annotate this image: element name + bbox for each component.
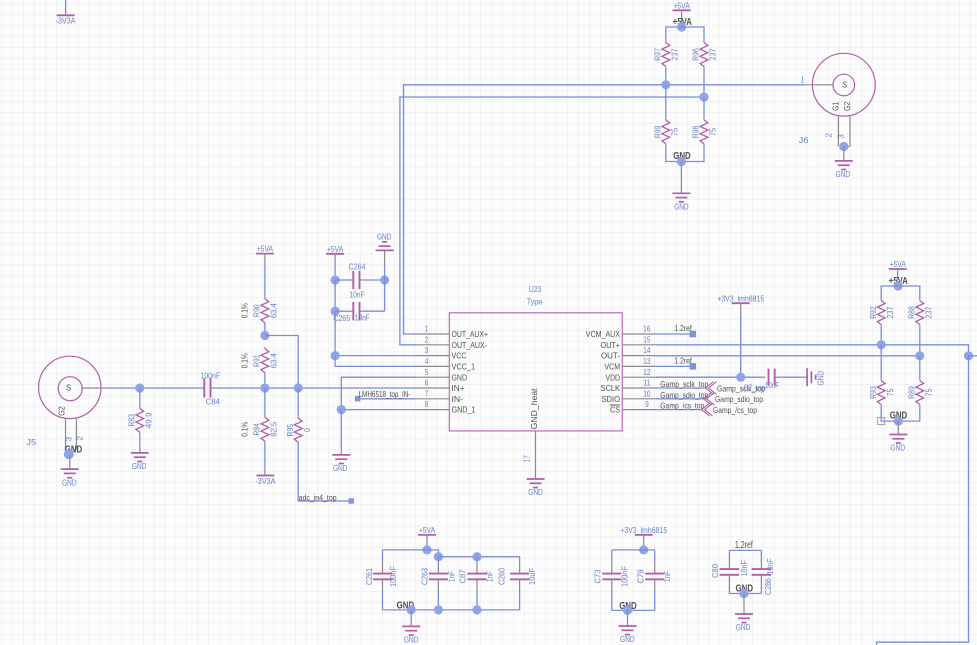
svg-text:10: 10	[643, 389, 651, 398]
pin 9 CS of U23	[610, 400, 656, 415]
svg-text:GND: GND	[736, 622, 751, 632]
svg-text:63.4: 63.4	[269, 353, 279, 368]
svg-text:OUT_AUX-: OUT_AUX-	[452, 341, 488, 350]
svg-text:10nF: 10nF	[739, 560, 749, 576]
wire VCM_AUX net (pin 16)	[656, 333, 691, 335]
pin 1 of J6	[801, 76, 833, 85]
pin G1 of J6	[824, 101, 841, 146]
wire R91 to main net	[264, 375, 266, 389]
wire VCC_1 net (pin 4)	[335, 356, 416, 367]
wire C87 top stub	[476, 557, 478, 574]
wire VDD net (pin 12)	[656, 376, 766, 378]
svg-text:1.2ref: 1.2ref	[674, 355, 692, 365]
resistor R83 49.9	[127, 407, 154, 435]
pin 11 SCLK of U23	[601, 379, 656, 394]
svg-text:VCC: VCC	[452, 352, 467, 361]
power +3V3_lmh6815 (bottom)	[620, 525, 667, 550]
wire R96 to node	[703, 68, 705, 97]
wire far right down to bottom	[877, 356, 969, 645]
wire GND rail (top bank)	[666, 146, 704, 162]
pin 13 VCM of U23	[605, 357, 656, 372]
wire top rail 1 (bottom bank)	[383, 550, 439, 557]
wire node B to R98	[703, 97, 705, 118]
junction C87 top	[472, 552, 481, 561]
junction R88/R89	[915, 351, 924, 360]
svg-text:11: 11	[643, 379, 651, 388]
svg-text:2: 2	[75, 436, 85, 441]
ground (above C264, inverted)	[376, 231, 394, 250]
wire R84 to -3V3A	[264, 443, 266, 475]
svg-text:1: 1	[425, 325, 429, 334]
wire to R83	[139, 388, 141, 407]
svg-text:C73: C73	[593, 569, 603, 583]
svg-text:J6: J6	[799, 135, 809, 145]
svg-text:3: 3	[425, 346, 429, 355]
wire VCC net (pin 3)	[335, 355, 416, 357]
svg-text:237: 237	[923, 306, 933, 318]
svg-text:82.5: 82.5	[269, 422, 279, 437]
wire GND net (pin 5)	[341, 377, 416, 409]
svg-text:GND: GND	[333, 463, 348, 473]
svg-text:R90: R90	[252, 304, 262, 317]
wire top rail (C80/C286)	[729, 549, 761, 551]
global label adc_in4_top	[299, 492, 354, 503]
svg-text:Gamp_sclk_top: Gamp_sclk_top	[660, 379, 708, 389]
wire to R89	[919, 356, 921, 379]
svg-text:VDD: VDD	[606, 373, 621, 382]
svg-text:C286: C286	[763, 578, 773, 595]
ground (top bank)	[672, 193, 690, 211]
svg-text:237: 237	[708, 48, 718, 60]
svg-text:GND: GND	[620, 634, 635, 644]
svg-text:C7_top: C7_top	[744, 383, 766, 393]
junction R83 top	[135, 383, 144, 392]
svg-text:3: 3	[835, 134, 845, 139]
pin 5 GND of U23	[416, 368, 467, 383]
svg-text:10nF: 10nF	[350, 289, 365, 299]
capacitor C286 10nF	[752, 559, 775, 596]
junction far right	[964, 351, 973, 360]
ground (pins 5/8)	[332, 455, 350, 473]
resistor R96 237	[691, 41, 718, 69]
wire top rail (C73/C79)	[612, 549, 655, 551]
junction R84 top on main net	[260, 383, 269, 392]
capacitor C79 1nF	[635, 569, 672, 583]
wire J6 to ground	[843, 147, 845, 161]
junction R95 top on main net	[294, 383, 303, 392]
svg-text:R99: R99	[653, 125, 663, 138]
resistor R88 237	[907, 299, 934, 327]
svg-text:4: 4	[425, 357, 429, 366]
svg-text:C261: C261	[364, 568, 374, 585]
svg-text:S: S	[66, 383, 71, 392]
wire C79 top stub	[654, 550, 656, 574]
svg-text:R83: R83	[127, 414, 137, 427]
wire bottom rail (C73/C79)	[612, 609, 655, 611]
resistor R90 63.4	[239, 297, 278, 325]
svg-text:C79: C79	[635, 569, 645, 583]
svg-text:16: 16	[643, 325, 651, 334]
svg-text:75: 75	[669, 128, 679, 136]
global label 1.2ref (pin 16)	[674, 323, 696, 337]
svg-text:OUT-: OUT-	[601, 352, 620, 361]
wire C79 bottom stub	[654, 579, 656, 610]
global label LMH6518_top_IN-	[355, 389, 411, 402]
wire C264 to C265 left	[334, 280, 336, 311]
wire main input net (J5 pin1 to IN+)	[98, 387, 416, 389]
capacitor C260 10uF	[497, 568, 537, 585]
svg-text:75: 75	[923, 388, 933, 396]
svg-text:Gamp_sdio_top: Gamp_sdio_top	[660, 390, 708, 400]
wire C260 bottom stub	[519, 579, 521, 610]
svg-text:C263: C263	[420, 568, 430, 585]
svg-text:-3V3A: -3V3A	[255, 476, 275, 486]
resistor R91 63.4	[239, 347, 278, 375]
svg-text:49.9: 49.9	[143, 412, 153, 428]
svg-text:75: 75	[885, 388, 895, 396]
wire OUT- net (pin 14)	[656, 355, 920, 357]
svg-text:IN+: IN+	[452, 384, 465, 393]
pin 3 VCC of U23	[416, 346, 467, 361]
resistor R98 75	[691, 118, 718, 146]
svg-text:R96: R96	[691, 48, 701, 61]
svg-text:GND: GND	[528, 487, 543, 497]
wire to ground (bottom bank)	[410, 610, 412, 627]
wire C286 top stub	[760, 550, 762, 569]
wire Gamp_sdio_top net	[656, 398, 704, 400]
svg-text:GND: GND	[816, 371, 826, 386]
wire R88 to OUT- net	[919, 326, 921, 356]
svg-text:U23: U23	[529, 284, 542, 294]
capacitor C264 10nF	[335, 262, 385, 300]
svg-text:GND: GND	[404, 635, 419, 645]
wire C265 to VCC net	[334, 311, 336, 355]
svg-text:17: 17	[523, 455, 532, 463]
svg-text:63.4: 63.4	[269, 303, 279, 318]
svg-text:+3V3_lmh6815: +3V3_lmh6815	[620, 525, 667, 535]
pin 15 OUT+ of U23	[601, 335, 656, 350]
svg-text:R88: R88	[907, 306, 917, 319]
svg-text:+3V3_lmh6815: +3V3_lmh6815	[717, 293, 764, 303]
wire to R95	[297, 388, 299, 416]
svg-text:J5: J5	[26, 437, 36, 447]
junction R90/R91	[260, 331, 269, 340]
global label Gamp_/cs_top	[702, 403, 758, 416]
svg-text:R93: R93	[868, 386, 878, 399]
svg-text:R92: R92	[868, 306, 878, 319]
resistor R95 0	[285, 416, 312, 444]
wire R95 to adc_in4_top label	[298, 444, 348, 501]
global label Gamp_sdio_top	[704, 393, 764, 406]
svg-text:10uF: 10uF	[527, 568, 537, 585]
svg-text:15: 15	[643, 335, 651, 344]
pin 7 IN- of U23	[416, 389, 464, 404]
wire C87 bottom stub	[476, 579, 478, 610]
svg-text:SDIO: SDIO	[602, 395, 621, 404]
svg-text:+5VA: +5VA	[890, 259, 907, 269]
svg-text:Type: Type	[527, 297, 543, 307]
ground (J6)	[835, 161, 853, 179]
connector J6	[812, 53, 875, 116]
junction +5VA top	[677, 22, 686, 31]
svg-text:0: 0	[302, 428, 312, 432]
capacitor C261 100nF	[364, 566, 398, 587]
resistor R84 82.5	[239, 416, 278, 444]
svg-text:GND: GND	[836, 169, 851, 179]
wire C286 bottom stub	[760, 575, 762, 594]
power +5VA (bottom bank)	[418, 525, 436, 550]
capacitor C84 100nF	[200, 370, 220, 406]
svg-text:100nF: 100nF	[388, 566, 398, 587]
junction GND net	[337, 405, 346, 414]
junction C263 bottom	[434, 605, 443, 614]
wire C73 top stub	[611, 550, 613, 574]
svg-text:+5VA: +5VA	[673, 0, 690, 10]
pin 16 VCM_AUX of U23	[586, 325, 656, 340]
junction node A	[661, 80, 670, 89]
svg-text:+5VA: +5VA	[327, 244, 344, 254]
svg-text:GND: GND	[377, 231, 392, 241]
svg-text:8: 8	[425, 400, 429, 409]
svg-text:1.2ref: 1.2ref	[674, 323, 692, 333]
wire R93/R89 to GND rail	[881, 406, 920, 421]
junction C264 right	[380, 275, 389, 284]
svg-text:14: 14	[643, 346, 651, 355]
pin G1 of J5	[70, 419, 85, 454]
svg-text:R84: R84	[252, 423, 262, 436]
svg-text:9: 9	[645, 400, 649, 409]
power +5VA (C264 block)	[326, 244, 344, 280]
wire Gamp_/cs_top net	[656, 409, 702, 411]
svg-text:100nF: 100nF	[200, 370, 220, 380]
svg-text:LMH6518_top_IN-: LMH6518_top_IN-	[359, 389, 411, 399]
wire C263 bottom stub	[437, 579, 439, 610]
svg-text:IN-: IN-	[452, 395, 464, 404]
svg-text:VCM: VCM	[605, 363, 621, 372]
svg-text:10nF: 10nF	[765, 380, 779, 390]
svg-text:R91: R91	[252, 354, 262, 367]
wire to ground (right bank)	[897, 421, 899, 434]
svg-text:C80: C80	[710, 564, 720, 578]
svg-text:OUT_AUX+: OUT_AUX+	[452, 330, 489, 339]
resistor R93 75	[868, 379, 895, 407]
wire R97 to node	[665, 68, 667, 85]
wire C260 top stub	[519, 557, 521, 574]
svg-text:GND: GND	[62, 477, 77, 487]
svg-text:Gamp_sdio_top: Gamp_sdio_top	[715, 394, 763, 404]
svg-text:1nF: 1nF	[447, 571, 457, 582]
junction C264 left	[331, 275, 340, 284]
junction R92/R93	[877, 340, 886, 349]
svg-text:6: 6	[425, 379, 429, 388]
pin 10 SDIO of U23	[602, 389, 656, 404]
svg-text:R89: R89	[907, 386, 917, 399]
pin G2 of J5	[56, 406, 73, 454]
svg-text:VCM_AUX: VCM_AUX	[586, 330, 621, 339]
capacitor C263 1nF	[420, 568, 457, 585]
svg-text:0.1%: 0.1%	[239, 303, 249, 318]
global label Gamp_sclk_top	[706, 382, 766, 395]
svg-text:5: 5	[425, 368, 429, 377]
pin 17 GND_heat of U23	[523, 388, 539, 479]
pin 6 IN+ of U23	[416, 379, 465, 394]
junction GND right bank	[894, 417, 903, 426]
value label C7_top 10nF	[744, 380, 780, 392]
capacitor C265 10nF	[333, 280, 384, 323]
svg-text:C260: C260	[497, 568, 507, 585]
ground (pin 17)	[527, 479, 545, 497]
wire C73 bottom stub	[611, 579, 613, 610]
junction GND C73/C79	[623, 606, 632, 615]
svg-text:1: 1	[801, 76, 805, 85]
svg-text:R95: R95	[285, 424, 295, 437]
wire C80 bottom stub	[728, 575, 730, 594]
wire to ground (C80 group)	[743, 594, 745, 615]
resistor R89 75	[907, 379, 934, 407]
svg-text:100nF: 100nF	[619, 566, 629, 587]
ground (pin 12, sideways)	[807, 368, 826, 386]
wire Gamp_sclk_top net	[656, 387, 706, 389]
ground (R83)	[131, 453, 149, 471]
junction node B	[699, 92, 708, 101]
wire to R93	[880, 345, 882, 379]
svg-text:GND: GND	[674, 202, 689, 212]
svg-text:G2: G2	[56, 406, 66, 416]
svg-text:Gamp_/cs_top: Gamp_/cs_top	[660, 401, 704, 411]
pin 8 GND_1 of U23	[416, 400, 476, 415]
wire C80 top stub	[728, 550, 730, 569]
svg-text:OUT+: OUT+	[601, 341, 621, 350]
svg-text:2: 2	[425, 335, 429, 344]
wire to R84	[264, 388, 266, 416]
svg-text:7: 7	[425, 389, 429, 398]
svg-text:1.2ref: 1.2ref	[735, 540, 753, 551]
junction VDD	[736, 373, 745, 382]
connector J5	[39, 356, 101, 418]
svg-text:adc_in4_top: adc_in4_top	[299, 492, 337, 502]
svg-text:C265: C265	[333, 313, 350, 323]
wire to ground (top bank)	[680, 162, 682, 194]
wire C263 top stub	[437, 557, 439, 574]
svg-text:CS: CS	[610, 406, 620, 415]
svg-text:2: 2	[824, 133, 834, 138]
wire R90 to R91	[264, 325, 266, 336]
junction +3V3 bottom	[639, 545, 648, 554]
wire +5VA rail top	[666, 27, 704, 41]
ground (bottom bank)	[402, 626, 420, 644]
pin 12 VDD of U23	[606, 368, 656, 383]
pin 2 OUT_AUX- of U23	[416, 335, 487, 350]
wire node A to R99	[665, 85, 667, 118]
power +5VA (top bank)	[673, 0, 691, 23]
ground (C73/C79)	[619, 626, 637, 644]
global label 1.2ref (pin 13)	[674, 355, 696, 369]
power +3V3_lmh6815 (middle)	[717, 293, 764, 377]
svg-text:GND: GND	[891, 443, 906, 453]
svg-text:C84: C84	[206, 397, 220, 407]
svg-text:237: 237	[885, 306, 895, 318]
svg-text:+5VA: +5VA	[257, 244, 274, 254]
svg-text:10nF: 10nF	[765, 559, 775, 575]
wire to ground (pins 5/8)	[340, 410, 342, 455]
pin G2 of J6	[835, 101, 852, 146]
wire junction to R95 column	[265, 336, 298, 389]
ground (J5)	[61, 469, 79, 487]
no-connect marker	[878, 418, 885, 425]
junction +5VA right	[894, 281, 903, 290]
junction GND bottom bank	[407, 605, 416, 614]
svg-text:G2: G2	[842, 101, 852, 111]
resistor R99 75	[653, 118, 680, 146]
wire bottom rail (bottom bank)	[383, 609, 520, 611]
capacitor C73 100nF	[593, 566, 630, 587]
junction J5 ground	[64, 449, 74, 459]
capacitor C87 1nF	[457, 569, 494, 583]
svg-text:13: 13	[643, 357, 651, 366]
pin 4 VCC_1 of U23	[416, 357, 476, 372]
wire far right to edge	[969, 355, 977, 357]
svg-text:GND_heat: GND_heat	[529, 388, 539, 430]
wire to ground (C73/C79)	[627, 610, 629, 626]
ground (C80 group)	[735, 614, 753, 632]
wire R92 to OUT+ net	[880, 326, 882, 345]
svg-text:1nF: 1nF	[484, 571, 494, 582]
resistor R92 237	[868, 299, 895, 327]
wire +5VA rail right	[881, 286, 920, 299]
junction C87 bottom	[472, 605, 481, 614]
junction GND C80 group	[739, 589, 748, 598]
junction rail step	[434, 552, 443, 561]
power -3V3A (below R84)	[256, 475, 274, 477]
junction C265 left	[331, 307, 340, 316]
IC U23 body	[449, 313, 622, 431]
wire OUT+ net (pin 15)	[656, 345, 969, 356]
resistor R97 237	[653, 41, 680, 69]
junction J6 ground	[839, 142, 848, 151]
wire top rail 2 (bottom bank)	[438, 556, 519, 558]
svg-text:SCLK: SCLK	[601, 384, 621, 393]
ground (right bank)	[889, 435, 907, 453]
pin 1 of J5	[81, 387, 97, 389]
capacitor C80 10nF	[710, 560, 749, 578]
svg-text:0.1%: 0.1%	[239, 353, 249, 368]
wire VCM net (pin 13)	[656, 365, 691, 367]
svg-text:-3V3A: -3V3A	[56, 16, 76, 26]
svg-text:237: 237	[669, 48, 679, 60]
svg-text:S: S	[842, 81, 847, 90]
svg-text:75: 75	[708, 128, 718, 136]
power +5VA (left column)	[256, 244, 274, 297]
svg-text:10nF: 10nF	[355, 313, 370, 323]
junction +5VA bottom bank	[422, 545, 431, 554]
pin 1 OUT_AUX+ of U23	[416, 325, 488, 340]
wire to ground above	[384, 250, 386, 280]
wire C261 top stub	[382, 550, 384, 574]
capacitor C7_top 10nF	[769, 369, 808, 386]
svg-text:R98: R98	[691, 125, 701, 138]
svg-text:Gamp_/cs_top: Gamp_/cs_top	[713, 405, 757, 415]
svg-text:GND_1: GND_1	[452, 406, 476, 415]
svg-text:1nF: 1nF	[662, 571, 672, 582]
junction GND (top bank)	[677, 157, 686, 166]
svg-text:R97: R97	[653, 48, 663, 61]
power +5VA (right bank)	[889, 259, 907, 280]
wire IN- net (pin 7)	[360, 398, 416, 400]
wire OUT_AUX+ net (to pin 1)	[404, 85, 805, 334]
svg-text:G1: G1	[831, 101, 841, 111]
wire GND_1 net (pin 8)	[341, 409, 416, 411]
svg-text:+5VA: +5VA	[419, 525, 436, 535]
